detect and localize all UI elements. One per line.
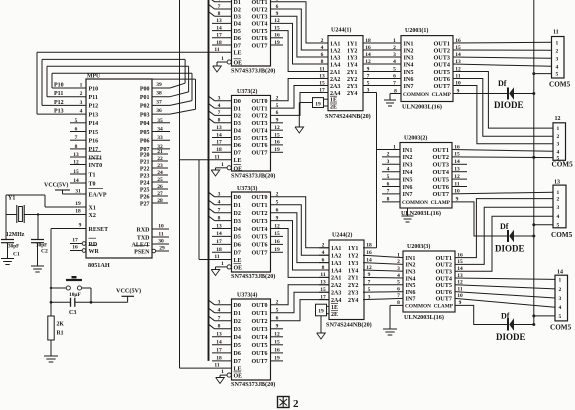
wire U244(2) 1Y2-2Y4 to U2003(3) IN1-IN7 bbox=[363, 252, 403, 306]
svg-text:17: 17 bbox=[216, 33, 222, 39]
svg-text:30pF: 30pF bbox=[8, 244, 19, 250]
svg-text:PSEN: PSEN bbox=[134, 249, 150, 255]
crystal Y1 12MHz bbox=[6, 196, 25, 239]
svg-text:OUT6: OUT6 bbox=[433, 76, 450, 83]
svg-text:U373(3): U373(3) bbox=[237, 185, 257, 192]
svg-text:4: 4 bbox=[80, 109, 83, 115]
svg-text:1Y2: 1Y2 bbox=[348, 254, 358, 260]
wire U373(3) OUT0-OUT4 to U244(2) 1A1-2A1 bbox=[271, 197, 330, 278]
svg-text:P02: P02 bbox=[140, 104, 150, 110]
svg-text:36: 36 bbox=[156, 108, 162, 114]
svg-text:11: 11 bbox=[214, 363, 219, 369]
svg-text:1Y2: 1Y2 bbox=[347, 48, 357, 54]
svg-text:25: 25 bbox=[157, 177, 163, 183]
svg-text:OUT4: OUT4 bbox=[252, 22, 268, 28]
svg-text:WR: WR bbox=[89, 249, 100, 255]
wire MPU T1/T0 stubs pins 15,14 bbox=[70, 169, 86, 184]
svg-text:C3: C3 bbox=[69, 310, 76, 316]
ground below C2 bbox=[31, 265, 44, 267]
svg-text:OUT3: OUT3 bbox=[252, 15, 268, 21]
svg-text:P10: P10 bbox=[89, 86, 99, 92]
svg-text:COM5: COM5 bbox=[549, 81, 571, 89]
svg-text:IN5: IN5 bbox=[404, 69, 414, 76]
svg-text:8: 8 bbox=[394, 88, 397, 94]
svg-text:D6: D6 bbox=[234, 243, 241, 249]
ground below C1 bbox=[1, 258, 14, 260]
svg-text:2: 2 bbox=[387, 152, 390, 158]
svg-text:1A4: 1A4 bbox=[330, 62, 340, 68]
svg-text:13: 13 bbox=[216, 125, 222, 131]
svg-text:LE: LE bbox=[234, 366, 242, 372]
node P13 wire to U373(1) LE line bbox=[37, 52, 232, 114]
svg-text:3: 3 bbox=[557, 205, 560, 211]
svg-text:D1: D1 bbox=[234, 311, 241, 317]
wire U373(1) OUT6 OUT7 stubs bbox=[271, 38, 284, 45]
wire LE line U373(2) bbox=[180, 159, 232, 161]
svg-text:14: 14 bbox=[216, 340, 222, 346]
resistor R1 2K bbox=[48, 302, 65, 356]
ground below U2003(2) COMMON bbox=[402, 215, 414, 217]
svg-text:1: 1 bbox=[80, 83, 83, 89]
svg-text:D4: D4 bbox=[234, 227, 241, 233]
svg-text:35: 35 bbox=[157, 118, 163, 124]
wire U2003(2) COMMON to ground bbox=[407, 208, 409, 216]
svg-text:OUT5: OUT5 bbox=[433, 69, 450, 76]
svg-text:OUT0: OUT0 bbox=[252, 99, 268, 105]
ground at U373(4) OE bbox=[216, 378, 225, 384]
svg-text:IN4: IN4 bbox=[404, 61, 414, 68]
svg-text:1A3: 1A3 bbox=[330, 55, 340, 61]
svg-text:4: 4 bbox=[557, 149, 560, 155]
svg-text:U244(1): U244(1) bbox=[331, 27, 351, 34]
latch U373(1) SN74S373 bbox=[209, 0, 276, 75]
svg-text:OUT6: OUT6 bbox=[252, 143, 268, 149]
svg-text:VCC(5V): VCC(5V) bbox=[44, 182, 68, 189]
svg-text:OUT3: OUT3 bbox=[432, 162, 449, 169]
power VCC(5V) to EA/VP pin 31 bbox=[44, 182, 86, 195]
svg-text:4: 4 bbox=[556, 64, 559, 70]
svg-text:1: 1 bbox=[559, 277, 562, 283]
svg-text:OUT0: OUT0 bbox=[252, 195, 268, 201]
svg-text:8: 8 bbox=[218, 324, 221, 330]
node P10 wire to P02 riser bbox=[52, 73, 192, 105]
wire U373(1) output pin numbers bbox=[274, 0, 280, 46]
svg-text:RXD: RXD bbox=[137, 227, 151, 233]
svg-text:P11: P11 bbox=[89, 95, 98, 101]
wire U2003(2) OUT2 to COM5(12) pin 5 and rail bbox=[452, 156, 554, 159]
wire common rail vertical bbox=[532, 0, 535, 326]
svg-text:OUT2: OUT2 bbox=[252, 114, 268, 120]
svg-text:3: 3 bbox=[218, 192, 221, 198]
svg-text:7: 7 bbox=[397, 293, 400, 299]
svg-text:2A3: 2A3 bbox=[330, 84, 340, 90]
svg-text:OUT4: OUT4 bbox=[432, 169, 449, 176]
wire MPU P20-P27 stubs pins 21-28 bbox=[152, 149, 168, 204]
wire U2003(2) OUT7 to COM5(13) pin 1 bbox=[452, 192, 554, 194]
svg-text:2: 2 bbox=[293, 398, 299, 410]
wire RESET net pin 9 bbox=[51, 223, 86, 303]
svg-text:Y1: Y1 bbox=[8, 196, 15, 202]
svg-text:EA/VP: EA/VP bbox=[89, 192, 107, 198]
svg-text:OUT1: OUT1 bbox=[432, 147, 449, 154]
driver U2003(2) ULN2003 bbox=[400, 135, 460, 218]
wire U373(3) OUT5-OUT7 stubs bbox=[271, 236, 284, 252]
svg-text:8051AH: 8051AH bbox=[88, 262, 110, 269]
svg-text:2Y4: 2Y4 bbox=[348, 298, 358, 304]
svg-text:12: 12 bbox=[555, 116, 561, 122]
svg-text:19: 19 bbox=[315, 101, 321, 107]
svg-text:COM5: COM5 bbox=[552, 161, 574, 169]
svg-text:OUT4: OUT4 bbox=[252, 335, 268, 341]
svg-text:21: 21 bbox=[157, 149, 163, 155]
svg-text:OUT7: OUT7 bbox=[252, 359, 268, 365]
wire U373(4) output pin numbers bbox=[274, 300, 280, 362]
svg-text:OUT2: OUT2 bbox=[252, 319, 268, 325]
svg-text:D7: D7 bbox=[234, 43, 241, 49]
svg-text:P03: P03 bbox=[140, 112, 150, 118]
svg-text:1: 1 bbox=[221, 56, 224, 62]
svg-text:SN74S373JB(20): SN74S373JB(20) bbox=[231, 173, 275, 180]
svg-text:OUT2: OUT2 bbox=[432, 154, 449, 161]
svg-text:1Y1: 1Y1 bbox=[347, 41, 357, 47]
svg-text:33: 33 bbox=[157, 135, 163, 141]
svg-text:11: 11 bbox=[214, 254, 219, 260]
svg-text:D2: D2 bbox=[234, 7, 241, 13]
svg-text:OUT4: OUT4 bbox=[433, 61, 450, 68]
svg-text:11: 11 bbox=[214, 47, 219, 53]
svg-text:1A1: 1A1 bbox=[330, 41, 340, 47]
svg-text:P24: P24 bbox=[140, 180, 150, 186]
svg-text:OUT7: OUT7 bbox=[432, 191, 449, 198]
svg-text:7: 7 bbox=[218, 4, 221, 10]
svg-text:D2: D2 bbox=[234, 114, 241, 120]
diode D3 Df bbox=[496, 312, 534, 343]
svg-text:6: 6 bbox=[75, 127, 78, 133]
svg-text:U244(2): U244(2) bbox=[332, 232, 352, 239]
svg-text:IN5: IN5 bbox=[403, 176, 413, 183]
svg-text:OUT6: OUT6 bbox=[252, 36, 268, 42]
svg-text:D6: D6 bbox=[234, 36, 241, 42]
svg-text:SN74S244NB(20): SN74S244NB(20) bbox=[325, 113, 371, 120]
svg-text:2Y3: 2Y3 bbox=[348, 291, 358, 297]
svg-text:28: 28 bbox=[157, 198, 163, 204]
svg-text:1E: 1E bbox=[331, 305, 338, 311]
svg-text:2: 2 bbox=[397, 259, 400, 265]
wire U244(1) enable pins boxed 19 to ground bbox=[299, 98, 328, 127]
svg-text:29: 29 bbox=[159, 245, 165, 251]
svg-text:4: 4 bbox=[218, 103, 221, 109]
svg-text:OUT5: OUT5 bbox=[252, 29, 268, 35]
svg-text:1Y3: 1Y3 bbox=[347, 55, 357, 61]
svg-text:COM5: COM5 bbox=[550, 324, 572, 332]
svg-text:1A2: 1A2 bbox=[331, 254, 341, 260]
svg-text:P26: P26 bbox=[140, 194, 150, 200]
svg-text:OUT3: OUT3 bbox=[252, 219, 268, 225]
svg-text:12: 12 bbox=[73, 159, 79, 165]
svg-text:2: 2 bbox=[556, 48, 559, 54]
svg-text:1: 1 bbox=[397, 252, 400, 258]
svg-text:INT1: INT1 bbox=[89, 155, 103, 161]
svg-text:2Y1: 2Y1 bbox=[347, 70, 357, 76]
node P11 wire to P01 riser bbox=[47, 66, 189, 97]
svg-text:13: 13 bbox=[216, 332, 222, 338]
svg-text:3: 3 bbox=[218, 300, 221, 306]
svg-text:C1: C1 bbox=[13, 252, 20, 258]
svg-text:IN4: IN4 bbox=[403, 169, 413, 176]
wire U373(2) output pin numbers bbox=[274, 96, 280, 154]
svg-text:VCC(5V): VCC(5V) bbox=[116, 288, 141, 295]
ground below R1 bbox=[44, 355, 58, 357]
svg-text:OUT6: OUT6 bbox=[252, 351, 268, 357]
svg-text:IN2: IN2 bbox=[404, 47, 414, 54]
svg-text:4: 4 bbox=[218, 0, 221, 3]
svg-text:4: 4 bbox=[218, 308, 221, 314]
svg-text:14: 14 bbox=[73, 178, 79, 184]
svg-text:OUT6: OUT6 bbox=[432, 184, 449, 191]
svg-text:38: 38 bbox=[156, 91, 162, 97]
ground at U373(3) OE bbox=[211, 270, 220, 276]
svg-text:D5: D5 bbox=[234, 343, 241, 349]
wire MPU RXD TXD ALE PSEN stubs pins 10,11,30,29 bbox=[152, 223, 169, 252]
svg-text:U2003(3): U2003(3) bbox=[407, 243, 430, 250]
svg-text:P21: P21 bbox=[140, 159, 150, 165]
svg-text:R1: R1 bbox=[57, 331, 64, 337]
svg-text:2E: 2E bbox=[331, 312, 338, 318]
svg-text:D5: D5 bbox=[234, 136, 241, 142]
svg-text:COMMON: COMMON bbox=[405, 304, 431, 310]
svg-text:8: 8 bbox=[218, 11, 221, 17]
connector COM5 J12 bbox=[552, 116, 574, 169]
diode D2 Df bbox=[495, 222, 534, 254]
svg-text:18: 18 bbox=[216, 356, 222, 362]
svg-text:14: 14 bbox=[216, 25, 222, 31]
svg-text:11: 11 bbox=[214, 154, 219, 160]
svg-text:P12: P12 bbox=[89, 104, 99, 110]
svg-text:3: 3 bbox=[218, 96, 221, 102]
svg-text:OE: OE bbox=[234, 166, 243, 172]
svg-text:OUT5: OUT5 bbox=[432, 176, 449, 183]
svg-text:2K: 2K bbox=[57, 322, 65, 328]
svg-text:D7: D7 bbox=[234, 251, 241, 257]
wire MPU INT1/INT0 stubs pins 13,12 bbox=[70, 152, 86, 166]
svg-text:D7: D7 bbox=[234, 151, 241, 157]
svg-text:7: 7 bbox=[218, 316, 221, 322]
svg-text:7: 7 bbox=[75, 135, 78, 141]
svg-text:10: 10 bbox=[158, 223, 164, 229]
svg-text:17: 17 bbox=[72, 238, 78, 244]
node P12 wire to P00 riser bbox=[42, 59, 185, 106]
svg-text:6: 6 bbox=[387, 181, 390, 187]
svg-text:1Y1: 1Y1 bbox=[348, 246, 358, 252]
capacitor C3 10uF bbox=[50, 292, 128, 316]
svg-text:13: 13 bbox=[216, 223, 222, 229]
svg-text:4: 4 bbox=[387, 167, 390, 173]
svg-text:Df: Df bbox=[498, 79, 507, 88]
svg-text:CLAMP: CLAMP bbox=[434, 304, 454, 310]
svg-text:SN74S373JB(20): SN74S373JB(20) bbox=[231, 68, 275, 75]
svg-text:6: 6 bbox=[397, 286, 400, 292]
wire U2003(2) IN2-IN7 stubs bbox=[382, 152, 400, 203]
svg-text:26: 26 bbox=[157, 184, 163, 190]
svg-text:2A2: 2A2 bbox=[330, 77, 340, 83]
wire U2003(1) OUT5-OUT7 down to COM5(12) pins 1-3 bbox=[453, 72, 553, 144]
wire U2003(3) COMMON to ground bbox=[390, 305, 403, 329]
wire U2003(3) OUT4-OUT7 to COM5(14) pins 1-4 bbox=[455, 278, 555, 307]
svg-text:5: 5 bbox=[75, 118, 78, 124]
svg-text:OUT1: OUT1 bbox=[252, 203, 268, 209]
wire U244(1) 1Y1-2Y3 to U2003(1) IN1-IN7 bbox=[363, 38, 401, 87]
svg-text:D0: D0 bbox=[234, 303, 241, 309]
svg-text:4: 4 bbox=[557, 214, 560, 220]
svg-text:U2003(1): U2003(1) bbox=[405, 27, 428, 34]
svg-text:D2: D2 bbox=[234, 319, 241, 325]
svg-text:OUT2: OUT2 bbox=[252, 211, 268, 217]
svg-text:6: 6 bbox=[393, 73, 396, 79]
svg-text:16: 16 bbox=[72, 245, 78, 251]
wire RD/WR stubs pins 17,16 bbox=[70, 238, 86, 253]
svg-text:2: 2 bbox=[80, 91, 83, 97]
svg-text:4: 4 bbox=[397, 273, 400, 279]
svg-text:24: 24 bbox=[157, 170, 163, 176]
wire COM5(14) pin5 from rail bbox=[534, 315, 555, 317]
svg-text:4: 4 bbox=[218, 200, 221, 206]
svg-text:P27: P27 bbox=[140, 201, 150, 207]
svg-text:19: 19 bbox=[318, 308, 324, 314]
svg-text:5: 5 bbox=[557, 223, 560, 229]
svg-text:CLAMP: CLAMP bbox=[432, 92, 452, 98]
svg-text:1: 1 bbox=[221, 261, 224, 267]
capacitor C1 30pF bbox=[1, 240, 20, 259]
svg-text:IN7: IN7 bbox=[404, 83, 414, 90]
svg-text:OUT4: OUT4 bbox=[252, 227, 268, 233]
svg-text:17: 17 bbox=[216, 348, 222, 354]
connector COM5 J11 bbox=[549, 30, 571, 89]
ground arrow below U244(1) enables bbox=[295, 127, 304, 133]
microcontroller U1 8051AH (MPU) bbox=[86, 74, 152, 270]
svg-text:INT0: INT0 bbox=[89, 163, 103, 169]
svg-text:P14: P14 bbox=[89, 121, 99, 127]
svg-text:P10: P10 bbox=[54, 83, 64, 89]
ground below U2003(1) COMMON bbox=[384, 99, 396, 101]
svg-text:7: 7 bbox=[387, 189, 390, 195]
svg-text:3: 3 bbox=[80, 100, 83, 106]
svg-text:U2003(2): U2003(2) bbox=[404, 135, 427, 142]
svg-text:P05: P05 bbox=[140, 130, 150, 136]
svg-text:1Y4: 1Y4 bbox=[347, 62, 357, 68]
svg-text:P04: P04 bbox=[140, 121, 150, 127]
svg-text:RD: RD bbox=[89, 242, 98, 248]
svg-text:TXD: TXD bbox=[137, 235, 150, 241]
svg-text:2: 2 bbox=[557, 134, 560, 140]
wire U2003(2) CLAMP to diode D2 bbox=[452, 202, 509, 236]
wire U373(3) output pin numbers bbox=[274, 192, 280, 254]
connector COM5 J14 bbox=[550, 270, 572, 332]
svg-text:1: 1 bbox=[221, 369, 224, 375]
svg-text:2A3: 2A3 bbox=[331, 291, 341, 297]
wire MPU P04-P07 stubs pins 35-32 bbox=[152, 118, 170, 150]
wire U2003(2) OUT3-OUT6 stubs bbox=[452, 164, 468, 186]
svg-text:D3: D3 bbox=[234, 219, 241, 225]
svg-text:OUT2: OUT2 bbox=[433, 47, 450, 54]
svg-text:CLAMP: CLAMP bbox=[431, 200, 451, 206]
svg-text:IN3: IN3 bbox=[404, 54, 414, 61]
svg-text:IN1: IN1 bbox=[403, 147, 413, 154]
power VCC(5V) at reset circuit bbox=[116, 288, 141, 303]
wire U244(1) 2Y4 down to U2003(2) IN1 and U244(2) 1Y1 bbox=[363, 93, 400, 248]
svg-text:27: 27 bbox=[157, 191, 163, 197]
svg-text:3: 3 bbox=[393, 52, 396, 58]
svg-text:COMMON: COMMON bbox=[402, 200, 428, 206]
svg-text:IN7: IN7 bbox=[403, 191, 413, 198]
svg-text:2Y2: 2Y2 bbox=[347, 77, 357, 83]
svg-text:SN74S373JB(20): SN74S373JB(20) bbox=[231, 273, 275, 280]
svg-text:1A3: 1A3 bbox=[331, 261, 341, 267]
svg-text:19: 19 bbox=[75, 201, 81, 207]
svg-text:12MHz: 12MHz bbox=[6, 232, 25, 238]
svg-text:2A1: 2A1 bbox=[330, 70, 340, 76]
svg-text:14: 14 bbox=[557, 270, 563, 276]
svg-text:P20: P20 bbox=[140, 152, 150, 158]
svg-text:IN6: IN6 bbox=[403, 184, 413, 191]
svg-text:COMMON: COMMON bbox=[403, 92, 429, 98]
svg-text:5: 5 bbox=[559, 314, 562, 320]
svg-text:14: 14 bbox=[216, 231, 222, 237]
svg-text:7: 7 bbox=[218, 208, 221, 214]
figure caption 图 2 bbox=[278, 397, 300, 410]
svg-text:8: 8 bbox=[75, 144, 78, 150]
svg-text:OUT1: OUT1 bbox=[433, 40, 450, 47]
svg-text:C2: C2 bbox=[41, 249, 48, 255]
svg-text:OUT5: OUT5 bbox=[252, 343, 268, 349]
svg-text:P15: P15 bbox=[89, 130, 99, 136]
svg-text:DIODE: DIODE bbox=[496, 332, 526, 342]
svg-text:OUT0: OUT0 bbox=[252, 303, 268, 309]
svg-text:MPU: MPU bbox=[87, 74, 101, 80]
svg-text:D1: D1 bbox=[234, 106, 241, 112]
svg-text:OUT5: OUT5 bbox=[252, 235, 268, 241]
svg-text:OUT3: OUT3 bbox=[252, 327, 268, 333]
wire X1 net pin 19 bbox=[6, 195, 86, 240]
svg-text:D0: D0 bbox=[234, 99, 241, 105]
svg-text:SN74S373JB(20): SN74S373JB(20) bbox=[231, 381, 275, 388]
svg-text:OUT3: OUT3 bbox=[433, 54, 450, 61]
svg-text:5: 5 bbox=[556, 72, 559, 78]
svg-text:34: 34 bbox=[157, 127, 163, 133]
svg-text:2Y1: 2Y1 bbox=[348, 276, 358, 282]
svg-text:11: 11 bbox=[158, 231, 163, 237]
ground arrow below U244(2) enables bbox=[317, 333, 326, 339]
svg-text:DIODE: DIODE bbox=[495, 244, 525, 254]
latch U373(3) SN74S373 bbox=[209, 185, 276, 280]
svg-text:18: 18 bbox=[216, 40, 222, 46]
wire U2003(1) CLAMP to diode D1 bbox=[453, 93, 508, 95]
svg-text:4: 4 bbox=[559, 305, 562, 311]
ground at U373(1) OE bbox=[213, 66, 222, 72]
svg-text:OUT6: OUT6 bbox=[252, 243, 268, 249]
svg-text:OUT1: OUT1 bbox=[252, 0, 268, 6]
svg-text:P11: P11 bbox=[54, 91, 63, 97]
wire U373(4) OUT0-OUT2 to U244(2) 2A2-2A4 bbox=[271, 285, 330, 321]
svg-text:OUT7: OUT7 bbox=[433, 83, 450, 90]
connector COM5 J13 bbox=[551, 180, 573, 240]
svg-text:OE: OE bbox=[234, 374, 243, 380]
svg-text:D3: D3 bbox=[234, 121, 241, 127]
wire U2003(3) CLAMP to diode D3 bbox=[455, 305, 508, 324]
wire COM5(11) pin5 from rail bbox=[534, 73, 552, 75]
svg-text:P25: P25 bbox=[140, 187, 150, 193]
svg-text:30: 30 bbox=[158, 238, 164, 244]
svg-text:1A1: 1A1 bbox=[331, 246, 341, 252]
